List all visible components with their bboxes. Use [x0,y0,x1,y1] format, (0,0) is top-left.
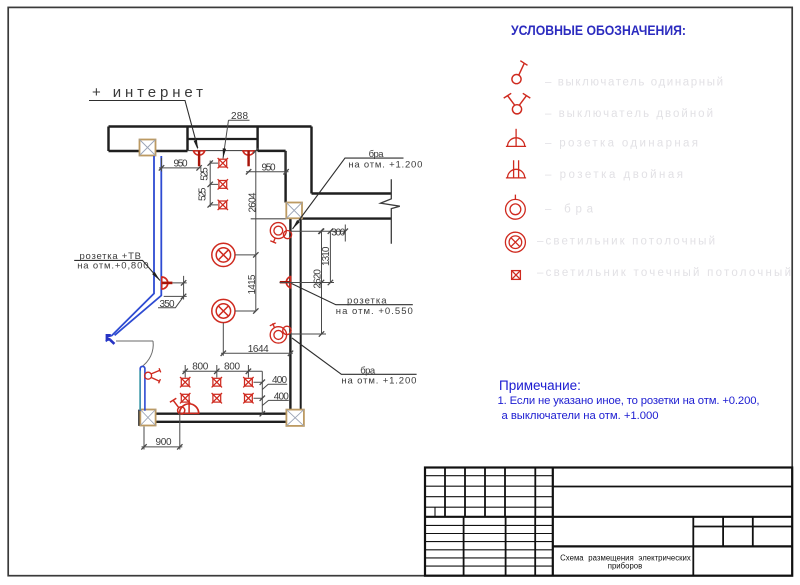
dim 900 [142,413,183,450]
title block section divider [425,516,792,518]
arrowhead socket TV leader [152,272,160,281]
svg-text:+ интернет: + интернет [92,84,203,101]
svg-text:а выключатели на отм. +1.000: а выключатели на отм. +1.000 [502,410,659,422]
wall: right wall outer line [300,219,302,410]
dim 950 left: line [159,158,202,172]
extension socket row [280,282,335,284]
wall: outer right corner [312,127,392,194]
svg-text:2604: 2604 [248,192,259,212]
svg-text:–светильник точечный потолочны: –светильник точечный потолочный [537,267,793,279]
leader bra top [293,158,404,229]
ceiling light L1 [212,243,235,266]
svg-text:на отм. +1.200: на отм. +1.200 [348,159,422,170]
connector light1 to dim [235,254,256,256]
socket TV on left wall [162,276,173,289]
arrowhead 288 leader [223,148,226,158]
svg-text:– выключатель одинарный: – выключатель одинарный [545,77,725,89]
leader bra bottom [292,338,417,374]
legend symbol: double socket [506,160,526,178]
niche sill thin line [188,150,259,152]
svg-text:1. Если не указано иное, то ро: 1. Если не указано иное, то розетки на о… [498,395,760,407]
wall: right wall inner line [289,219,291,410]
wall: right-top corner block [258,127,286,203]
svg-text:2620: 2620 [313,269,324,289]
dim 288 leader [223,120,250,158]
door leaf [140,366,145,410]
column K4 bottom-left [140,410,155,426]
svg-text:300: 300 [331,227,345,238]
svg-text:1310: 1310 [321,246,332,266]
wall: top-left room wall rectangle [109,127,188,152]
blue partition wall vertical pair [106,156,154,342]
column K2 right-middle [286,203,302,219]
svg-text:на отм. +0.550: на отм. +0.550 [336,306,413,317]
wall: niche inner edge [188,138,258,140]
legend symbol: ceiling light [505,232,525,252]
blue wall end arrow [106,334,111,341]
svg-text:– выключатель двойной: – выключатель двойной [545,108,715,120]
legend labels [537,77,793,280]
legend symbol: double switch [504,93,531,114]
leader internet [89,101,198,149]
title block lower-left row lines [425,525,553,566]
svg-text:288: 288 [231,111,248,122]
svg-text:800: 800 [192,361,208,372]
svg-text:УСЛОВНЫЕ ОБОЗНАЧЕНИЯ:: УСЛОВНЫЕ ОБОЗНАЧЕНИЯ: [511,22,686,38]
dim 1310 vertical [329,231,331,282]
door threshold line [116,340,153,342]
socket S3 right wall [280,276,291,289]
svg-text:950: 950 [174,159,188,170]
svg-text:350: 350 [160,299,175,310]
dim 800 800 horizontal [183,365,263,378]
svg-text:900: 900 [156,437,172,448]
wall: top outer edge [109,125,312,127]
svg-text:на отм. +1.200: на отм. +1.200 [341,375,416,386]
door swing arc [141,341,154,368]
dim 400 400 vertical [261,371,263,413]
title block right mini grid [693,517,792,576]
wall: bottom wall top edge [156,413,287,415]
column K3 bottom-right [286,410,304,426]
svg-text:950: 950 [262,163,276,174]
thin ledge line left of column2 [251,218,287,220]
svg-text:–светильник потолочный: –светильник потолочный [537,236,717,248]
title block outer [425,468,792,576]
switch-socket block on bottom wall [170,398,200,414]
socket S1 on niche [193,151,206,166]
dim 1644 [221,323,293,356]
title block right row line [553,486,792,488]
svg-text:800: 800 [224,361,240,372]
title block small split bottom-left row [434,507,436,517]
title block upper-left verticals [445,468,535,517]
svg-text:бра: бра [369,149,385,160]
point light grid bottom rows [180,377,254,403]
legend symbol: sconce bra [506,195,526,220]
svg-text:525: 525 [200,167,211,181]
point lights column x=222 [218,158,228,210]
TITLEBLOCK [425,468,792,576]
leader socket TV [74,260,160,280]
dim 525 vertical line [209,161,211,208]
extension bra2 row [291,333,327,335]
svg-text:400: 400 [272,375,287,386]
legend symbol: point ceiling light [512,271,521,280]
svg-text:– розетка одинарная: – розетка одинарная [545,138,700,150]
dim 2620 vertical [321,231,323,334]
dim 300 [291,225,346,242]
wall break zigzag [381,179,400,244]
dim 2604-1415 vertical line [255,151,257,311]
leader socket right [292,284,413,305]
svg-text:– розетка двойная: – розетка двойная [545,169,685,181]
double switch on left wall [145,368,161,383]
title block name cell top [553,545,792,547]
wall: bottom-left corner stub [138,410,140,426]
svg-text:1415: 1415 [247,274,258,294]
svg-text:Примечание:: Примечание: [499,378,581,393]
wall: bottom wall bottom edge [156,421,287,423]
dim 350 [164,276,187,300]
legend symbol: single switch [512,61,528,84]
arrowhead internet leader [194,140,198,150]
wall: lower edge of top-right band [302,217,392,219]
svg-text:525: 525 [197,187,208,201]
svg-text:1644: 1644 [248,344,269,355]
title block lower-left verticals [464,517,536,576]
dim 950 right: line [246,152,289,175]
title block upper-left grid horizontals [425,476,553,508]
svg-text:400: 400 [274,391,289,402]
socket S2 on niche [242,151,255,166]
svg-text:приборов: приборов [608,562,643,571]
title block col divider thick [552,468,554,576]
ceiling light L2 [212,299,235,322]
arrowhead bra top leader [293,220,300,229]
legend symbol: single socket [506,129,526,147]
sconce bra B1 [270,223,291,244]
svg-text:на отм.+0,800: на отм.+0,800 [77,260,148,271]
sconce bra B2 [270,323,291,343]
svg-text:– бра: – бра [545,203,595,215]
column K1 top-left [140,140,156,156]
connector light2 to dim [235,310,256,312]
dim 400 labels leaders [262,384,287,389]
